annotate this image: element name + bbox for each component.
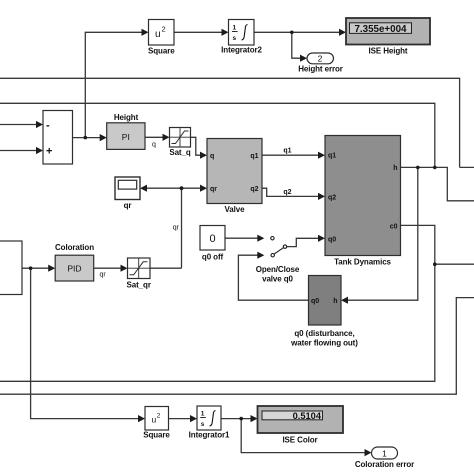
svg-text:u: u (152, 415, 157, 425)
svg-text:-: - (46, 120, 50, 132)
svg-text:2: 2 (157, 413, 161, 420)
manual switch Open/Close valve q0 (256, 237, 300, 284)
svg-text:Integrator2: Integrator2 (221, 46, 262, 55)
svg-text:water flowing out): water flowing out) (290, 339, 358, 348)
wire h branch down to q0 disturbance (348, 167, 418, 300)
wire sum1 plus input (0, 150, 37, 152)
svg-text:Coloration error: Coloration error (355, 460, 414, 469)
svg-text:Integrator1: Integrator1 (189, 431, 230, 440)
wire branch down to Coloration error port (241, 419, 365, 453)
wire sum2 out to PID (22, 267, 49, 269)
svg-text:2: 2 (162, 25, 166, 34)
svg-text:Height: Height (114, 113, 139, 122)
PID block Coloration (55, 243, 106, 281)
wire branch up to Square (85, 32, 142, 137)
wire Tank h output to right edge (401, 167, 474, 200)
saturation Sat_qr (127, 258, 151, 290)
svg-text:Square: Square (148, 47, 175, 56)
wire long second y=103.3 (0, 103, 435, 167)
svg-text:ISE Height: ISE Height (368, 47, 407, 56)
svg-text:2: 2 (318, 53, 323, 63)
svg-text:Open/Close: Open/Close (256, 265, 300, 274)
svg-text:s: s (233, 35, 237, 42)
svg-text:PID: PID (67, 264, 81, 274)
svg-text:q2: q2 (328, 194, 336, 201)
svg-text:valve q0: valve q0 (262, 275, 293, 284)
saturation Sat_q (169, 128, 190, 158)
integrator block Integrator1 (189, 406, 230, 440)
valve block (207, 139, 262, 215)
wire qr line display-valve (146, 187, 200, 189)
svg-text:qr: qr (100, 272, 107, 279)
wire sum1 output to PI (73, 137, 101, 139)
wire long top h feedback y=78 (0, 78, 474, 167)
svg-text:+: + (46, 146, 52, 158)
svg-text:q0 off: q0 off (202, 253, 224, 262)
svg-text:c0: c0 (390, 223, 398, 230)
q0 disturbance block (290, 276, 358, 348)
sum block Sum1 (43, 111, 73, 165)
junction dots (84, 136, 88, 140)
wire PI to Sat_q (145, 136, 163, 138)
svg-text:u: u (155, 29, 161, 40)
svg-text:q0: q0 (328, 236, 336, 243)
outport 1 Coloration error (355, 447, 414, 469)
svg-text:q2: q2 (283, 189, 291, 196)
svg-text:s: s (201, 421, 205, 428)
display ISE Height (346, 18, 430, 56)
svg-text:h: h (393, 165, 397, 172)
svg-text:qr: qr (210, 186, 217, 193)
arrowheads (36, 121, 43, 128)
svg-text:q1: q1 (283, 148, 291, 155)
svg-text:q: q (210, 153, 214, 160)
wire q0 off to switch (225, 237, 258, 239)
outport 2 Height error (298, 53, 343, 74)
svg-text:Tank Dynamics: Tank Dynamics (334, 258, 391, 267)
svg-text:1: 1 (233, 25, 237, 32)
square block Square (top) (148, 20, 175, 56)
wire Valve q1 to Tank (262, 154, 319, 156)
svg-text:h: h (333, 298, 337, 305)
wire q0 disturbance to switch (238, 255, 308, 300)
svg-text:Height error: Height error (298, 65, 343, 74)
wire PID to Sat_qr (94, 267, 122, 269)
PI block (107, 113, 156, 149)
wire Square2 to Integrator1 (169, 418, 191, 420)
svg-text:0: 0 (209, 233, 215, 245)
svg-text:Valve: Valve (225, 205, 246, 214)
wire Square to Integrator2 (174, 31, 222, 33)
svg-text:Coloration: Coloration (55, 243, 94, 252)
display ISE Color (258, 406, 344, 445)
svg-text:q2: q2 (250, 186, 258, 193)
wire branch down to Height error port (292, 32, 301, 58)
svg-text:Sat_qr: Sat_qr (127, 281, 151, 290)
wire long y=394 to right edge y=297.5 (0, 298, 474, 395)
wire Integrator2 to ISE Height (254, 31, 340, 33)
wire switch output to Tank q0 (287, 238, 319, 246)
wire c0 branch to right edge y=264 (435, 263, 474, 265)
wire Valve q2 to Tank (262, 188, 319, 196)
svg-text:qr: qr (173, 225, 180, 232)
display qr scope (115, 177, 140, 210)
wire Tank c0 output wrap y=381 (0, 225, 435, 381)
svg-text:PI: PI (122, 132, 130, 142)
wire Sat_q to Valve q (191, 137, 201, 155)
wire sum1 minus input (0, 124, 37, 126)
svg-text:Sat_q: Sat_q (169, 148, 190, 157)
wire Integrator1 to ISE Color (221, 418, 251, 420)
wire qr vertical from Sat_qr (150, 188, 182, 268)
svg-text:qr: qr (124, 201, 132, 210)
svg-text:ISE Color: ISE Color (282, 436, 317, 445)
svg-text:0.5104: 0.5104 (293, 411, 322, 421)
svg-text:q0: q0 (311, 298, 319, 305)
wire branch down to Square2 (31, 268, 139, 418)
sum block Sum2 (cut at left edge) (0, 241, 22, 295)
tank dynamics block (325, 136, 401, 267)
svg-text:q0 (disturbance,: q0 (disturbance, (294, 329, 354, 338)
constant q0 off (200, 226, 225, 262)
integrator block Integrator2 (221, 20, 262, 55)
square block Square (bottom) (143, 407, 170, 440)
svg-text:1: 1 (201, 411, 205, 418)
svg-text:q1: q1 (250, 153, 258, 160)
svg-text:1: 1 (382, 449, 387, 459)
svg-text:Square: Square (143, 431, 170, 440)
svg-text:7.355e+004: 7.355e+004 (354, 24, 407, 35)
svg-text:q1: q1 (328, 153, 336, 160)
svg-text:q: q (152, 142, 156, 149)
